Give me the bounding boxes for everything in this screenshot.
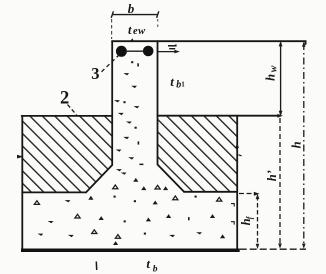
svg-text:t: t	[128, 23, 132, 37]
svg-text:h: h	[290, 141, 304, 148]
svg-text:1: 1	[181, 81, 185, 89]
svg-text:h’: h’	[265, 170, 279, 181]
svg-text:h: h	[263, 74, 277, 81]
svg-text:b: b	[128, 1, 135, 16]
svg-text:w: w	[268, 65, 279, 72]
svg-text:3: 3	[91, 64, 99, 83]
svg-text:t: t	[170, 74, 174, 89]
svg-text:2: 2	[60, 88, 69, 108]
svg-text:ew: ew	[133, 26, 146, 37]
svg-text:t: t	[146, 256, 150, 271]
svg-text:b: b	[153, 265, 158, 274]
